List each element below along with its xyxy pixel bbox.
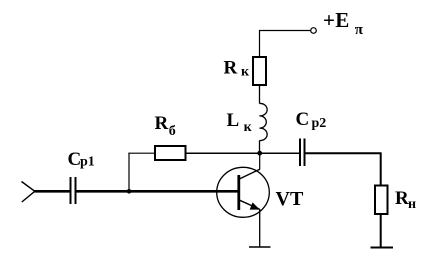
label VT xyxy=(276,188,304,210)
wire emitter down xyxy=(259,209,261,247)
svg-text:π: π xyxy=(355,22,364,38)
wire down to R_n xyxy=(380,153,382,186)
svg-text:p2: p2 xyxy=(312,116,327,131)
ground emitter xyxy=(249,246,271,248)
svg-text:R: R xyxy=(155,113,169,134)
resistor R_n xyxy=(375,186,388,215)
wire R_b to collector node xyxy=(187,152,300,154)
transistor Q1 emitter lead xyxy=(240,200,260,209)
svg-text:б: б xyxy=(169,124,176,139)
terminal +Ep xyxy=(311,28,317,34)
wire C_p1 to base xyxy=(77,190,239,193)
svg-text:C: C xyxy=(296,109,310,130)
resistor R_b xyxy=(155,146,186,160)
input chevron xyxy=(22,182,35,203)
wire input to C_p1 xyxy=(35,190,70,193)
svg-text:R: R xyxy=(395,188,409,209)
label L_k xyxy=(227,110,253,135)
node base junction xyxy=(127,189,132,194)
capacitor C2 plate right xyxy=(304,139,306,167)
wire to R_b xyxy=(128,152,155,154)
svg-text:VT: VT xyxy=(276,188,304,210)
transistor Q1 base bar xyxy=(237,175,240,210)
ground R_n xyxy=(371,247,394,249)
label C_p2 xyxy=(296,109,327,131)
svg-text:L: L xyxy=(227,110,240,131)
wire R_k up xyxy=(259,31,261,57)
svg-text:R: R xyxy=(224,58,238,79)
svg-text:p1: p1 xyxy=(80,155,95,170)
label C_p1 xyxy=(68,149,95,170)
capacitor C1 plate left xyxy=(70,177,72,204)
svg-text:к: к xyxy=(241,65,250,80)
label R_k xyxy=(224,58,251,80)
transistor Q1 emitter arrow xyxy=(250,202,260,209)
capacitor C1 plate right xyxy=(75,177,77,204)
inductor L_k coil xyxy=(260,86,268,153)
wire C2 to R_n xyxy=(306,152,382,154)
label R_n xyxy=(395,188,416,212)
capacitor C2 plate left xyxy=(299,139,301,167)
wire junction up xyxy=(128,153,130,190)
label R_b xyxy=(155,113,176,139)
svg-text:+: + xyxy=(323,8,335,32)
svg-text:к: к xyxy=(244,120,253,135)
wire collector up to node xyxy=(259,153,261,170)
wire R_n down xyxy=(380,214,382,248)
wire to supply terminal xyxy=(259,30,311,32)
svg-text:н: н xyxy=(408,197,416,212)
node collector junction xyxy=(257,151,262,156)
transistor Q1 collector lead xyxy=(240,169,260,179)
resistor R_k xyxy=(253,57,266,85)
transistor Q1 circle xyxy=(217,167,270,217)
label +Ep xyxy=(323,8,364,38)
svg-text:E: E xyxy=(335,8,349,32)
